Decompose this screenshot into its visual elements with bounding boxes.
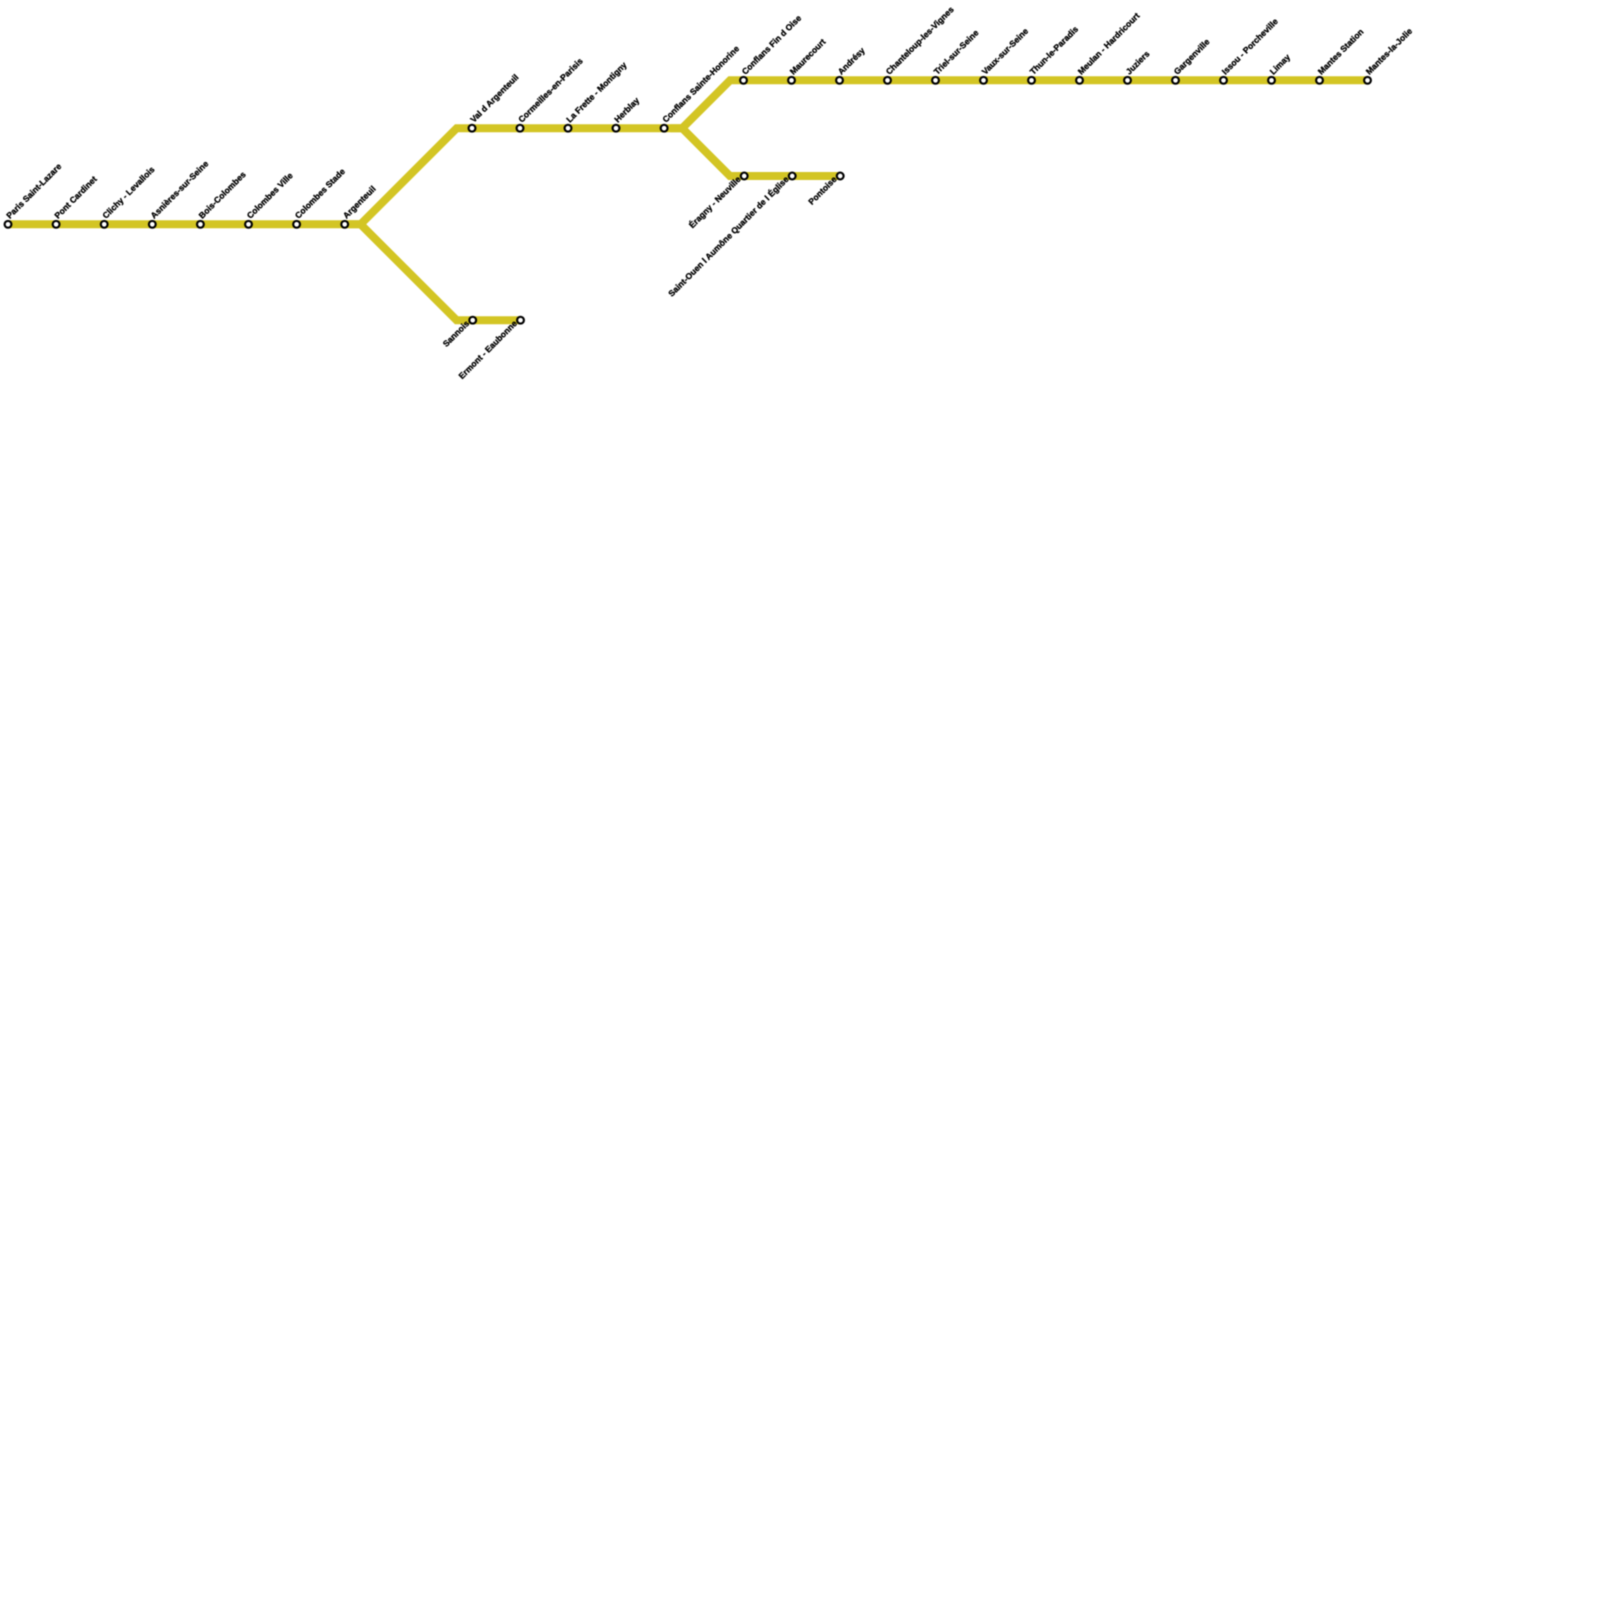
station Argenteuil	[341, 184, 378, 228]
station Limay	[1268, 52, 1293, 84]
station Asnières-sur-Seine	[148, 158, 210, 227]
station Triel-sur-Seine	[932, 27, 981, 83]
svg-text:Val d Argenteuil: Val d Argenteuil	[468, 72, 520, 124]
station Clichy - Levallois	[100, 164, 156, 228]
station Éragny - Neuville	[687, 173, 748, 230]
svg-text:Colombes Ville: Colombes Ville	[245, 170, 295, 220]
station Bois-Colombes	[197, 169, 248, 228]
svg-text:Andrésy: Andrésy	[836, 45, 867, 76]
svg-text:Limay: Limay	[1268, 52, 1293, 77]
station Chanteloup-les-Vignes	[884, 4, 956, 83]
station Colombes Ville	[245, 170, 295, 227]
station Colombes Stade	[293, 166, 347, 228]
station Meulan - Hardricourt	[1076, 11, 1142, 84]
station Pont Cardinet	[52, 174, 99, 228]
svg-text:Éragny - Neuville: Éragny - Neuville	[687, 174, 743, 230]
station Andrésy	[836, 45, 867, 84]
station Sannois	[441, 317, 476, 349]
svg-text:Vaux-sur-Seine: Vaux-sur-Seine	[980, 26, 1031, 77]
station Mantes Station	[1316, 27, 1366, 84]
station Thun-le-Paradis	[1028, 24, 1081, 84]
station Cormeilles-en-Parisis	[516, 56, 585, 132]
svg-text:Colombes Stade: Colombes Stade	[293, 166, 347, 220]
svg-text:Herblay: Herblay	[612, 95, 641, 124]
svg-text:Triel-sur-Seine: Triel-sur-Seine	[932, 27, 981, 76]
line J branch Conflans - Pontoise	[670, 128, 840, 176]
svg-text:Clichy - Levallois: Clichy - Levallois	[100, 164, 156, 220]
svg-text:Bois-Colombes: Bois-Colombes	[197, 169, 248, 220]
station La Frette - Montigny	[564, 60, 629, 132]
svg-text:Mantes-la-Jolie: Mantes-la-Jolie	[1364, 26, 1415, 77]
station Conflans Fin d Oise	[740, 13, 804, 84]
station Maurecourt	[788, 37, 828, 84]
station Mantes-la-Jolie	[1364, 26, 1415, 84]
station Pontoise	[806, 173, 843, 207]
svg-text:Pont Cardinet: Pont Cardinet	[52, 174, 99, 221]
svg-text:Gargenville: Gargenville	[1172, 36, 1212, 76]
svg-text:Thun-le-Paradis: Thun-le-Paradis	[1028, 24, 1081, 77]
station Paris Saint-Lazare	[4, 161, 63, 228]
station Ermont - Eaubonne	[456, 317, 523, 381]
station Juziers	[1124, 49, 1152, 84]
line J branch Argenteuil - Ermont - Eaubonne	[349, 224, 521, 320]
svg-text:Mantes Station: Mantes Station	[1316, 27, 1366, 77]
line J trunk Paris Saint-Lazare - Mantes-la-Jolie	[8, 80, 1368, 224]
station Vaux-sur-Seine	[980, 26, 1031, 84]
station Herblay	[612, 95, 641, 132]
svg-text:Juziers: Juziers	[1124, 49, 1152, 77]
station Val d Argenteuil	[468, 72, 520, 131]
station Gargenville	[1172, 36, 1212, 83]
station Saint-Ouen l Aumône Quartier de l Église	[666, 173, 795, 299]
station Conflans Sainte-Honorine	[660, 43, 741, 131]
svg-text:Maurecourt: Maurecourt	[788, 37, 828, 77]
station Issou - Porcheville	[1220, 16, 1280, 84]
